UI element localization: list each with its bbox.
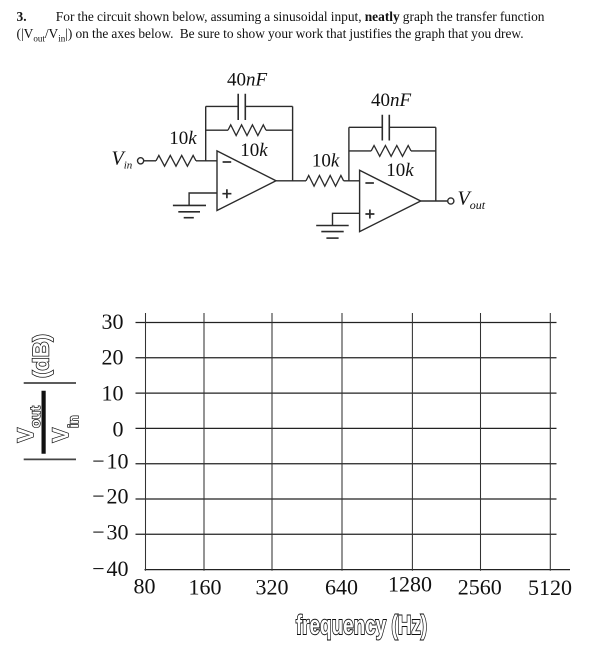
svg-text:− 10: − 10: [92, 448, 128, 473]
svg-text:(dB): (dB): [28, 334, 53, 378]
wire feedback resistor row left lead (stage 2): [349, 150, 371, 152]
svg-text:30: 30: [102, 309, 124, 334]
wire Vin terminal to R1: [144, 160, 156, 162]
header line 1 text: [56, 9, 545, 25]
wire R1 to op-amp U1 inverting input (node A): [196, 160, 217, 162]
capacitor C2 40nF plates: [382, 115, 389, 141]
resistor R2 10k (feedback stage 1): [228, 125, 266, 136]
y-axis title fraction bar: [41, 391, 45, 454]
wire node B up to feedback network (left vertical, stage 2): [348, 127, 350, 181]
ground symbol (stage 2): [316, 226, 349, 239]
header line 1 problem number: [17, 9, 27, 25]
svg-text:Vin: Vin: [112, 148, 133, 172]
wire feedback right vertical down to U1 output: [292, 106, 294, 180]
svg-text:10k: 10k: [386, 160, 414, 181]
svg-text:Vout: Vout: [13, 406, 43, 443]
wire feedback resistor row right lead: [266, 129, 293, 131]
x-axis line (-40 dB): [145, 569, 571, 571]
input terminal Vin: [138, 158, 144, 164]
resistor R3 10k (input stage 2): [306, 175, 344, 186]
op-amp U1 triangle: [217, 151, 276, 211]
capacitor C1 40nF plates: [238, 94, 245, 120]
y-axis tick labels positive: [102, 309, 124, 442]
svg-text:10k: 10k: [312, 151, 340, 172]
svg-text:40nF: 40nF: [227, 70, 268, 91]
grid horizontal lines (30..-30 dB): [136, 323, 557, 535]
svg-text:0: 0: [113, 417, 124, 442]
x-axis tick labels: [134, 572, 573, 601]
op-amp U2 plus symbol: [365, 210, 374, 219]
svg-text:1280: 1280: [388, 572, 432, 597]
svg-text:5120: 5120: [528, 575, 572, 600]
wire U1 non-inverting input to ground: [189, 193, 217, 205]
header line 2 text: [17, 26, 524, 44]
wire node A up to feedback network (left vertical): [205, 106, 207, 160]
wire U2 non-inverting input to ground: [333, 213, 360, 225]
y-axis tick labels negative: [92, 448, 128, 581]
op-amp U2 minus symbol: [365, 182, 374, 184]
wire capacitor row left lead: [206, 105, 239, 107]
wire R3 to op-amp U2 inverting input (node B): [344, 180, 360, 182]
svg-text:640: 640: [325, 574, 358, 599]
y-axis title absolute-value bar bottom: [24, 458, 76, 460]
svg-text:40nF: 40nF: [371, 90, 412, 111]
ground symbol (stage 1): [173, 205, 206, 217]
wire feedback resistor row right lead (stage 2): [411, 150, 436, 152]
svg-text:Vout: Vout: [458, 187, 486, 212]
svg-text:frequency (Hz): frequency (Hz): [296, 610, 427, 640]
svg-text:Vin: Vin: [48, 415, 81, 442]
op-amp U1 minus symbol: [223, 161, 232, 163]
svg-text:160: 160: [189, 574, 222, 599]
svg-text:10k: 10k: [240, 140, 268, 161]
wire feedback resistor row left lead: [206, 129, 228, 131]
wire capacitor row right lead: [245, 105, 292, 107]
svg-text:20: 20: [102, 345, 124, 370]
svg-text:− 40: − 40: [92, 556, 128, 581]
svg-text:− 20: − 20: [92, 484, 128, 509]
svg-text:2560: 2560: [458, 574, 502, 599]
svg-text:10k: 10k: [169, 128, 197, 149]
grid vertical lines (80..5120 Hz): [146, 313, 551, 571]
output terminal Vout: [448, 198, 454, 204]
resistor R1 10k (input stage 1): [156, 155, 196, 166]
wire U1 output to R3: [276, 180, 306, 182]
svg-text:80: 80: [134, 574, 156, 599]
svg-text:− 30: − 30: [92, 520, 128, 545]
wire feedback right vertical down to U2 output: [435, 127, 437, 201]
svg-text:10: 10: [102, 381, 124, 406]
svg-text:320: 320: [256, 574, 289, 599]
wire capacitor row right lead (stage 2): [389, 126, 436, 128]
y-axis title absolute-value bar top: [24, 382, 76, 384]
wire capacitor row left lead (stage 2): [349, 126, 382, 128]
op-amp U1 plus symbol: [222, 189, 231, 198]
resistor R4 10k (feedback stage 2): [371, 146, 411, 157]
op-amp U2 triangle: [360, 170, 421, 231]
wire U2 output to Vout terminal: [421, 200, 448, 202]
